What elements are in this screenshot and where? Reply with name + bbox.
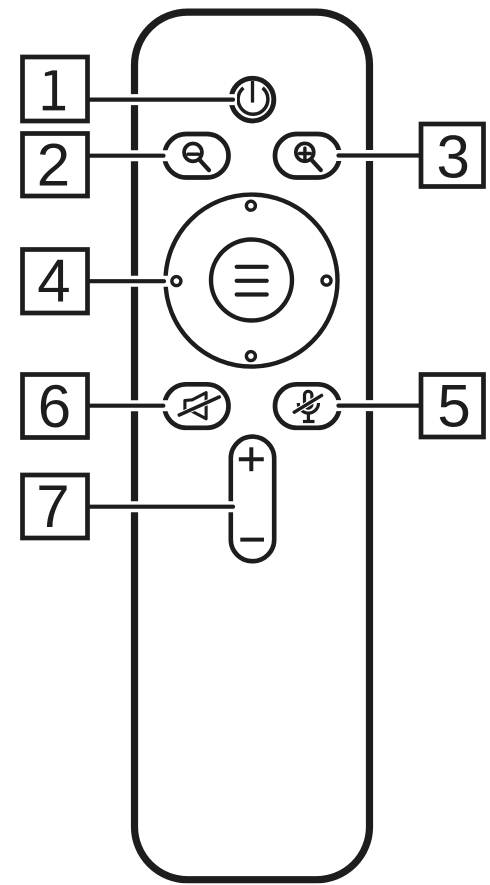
zoom-in icon handle [312, 160, 321, 170]
leader line 3 [339, 153, 419, 157]
d-pad dot bottom [246, 352, 255, 361]
leader line 2 [90, 154, 164, 158]
label box 1 [23, 57, 88, 121]
mic icon holder arc [298, 403, 318, 413]
leader line 2 casing [92, 150, 169, 161]
mute icon slash [179, 397, 219, 415]
mic icon base [303, 420, 315, 423]
d-pad outer ring [166, 195, 338, 367]
label box 5 [421, 375, 484, 438]
volume plus [239, 457, 264, 461]
digit 1 [43, 70, 65, 110]
d-pad dot left [172, 277, 181, 286]
leader line 4 casing [92, 276, 169, 287]
svg-text:5: 5 [437, 373, 470, 440]
power icon arc [238, 88, 268, 114]
zoom-out button pill [165, 134, 229, 178]
d-pad menu line top [237, 265, 267, 269]
zoom-in icon plus [300, 152, 311, 155]
leader line 4 [90, 279, 164, 283]
leader line 1 [90, 97, 233, 101]
zoom-out icon handle [200, 160, 209, 170]
label box 3 [421, 124, 484, 187]
remote body outline [135, 12, 370, 880]
zoom-out icon lens [184, 144, 202, 162]
volume minus [240, 538, 264, 542]
d-pad inner circle [211, 240, 292, 321]
zoom-in icon lens [296, 143, 314, 161]
leader line 1 casing [92, 94, 237, 105]
mic icon stem [307, 413, 310, 420]
leader line 6 [90, 404, 163, 408]
leader line 7 [90, 505, 233, 509]
mic button pill [275, 384, 340, 428]
svg-text:2: 2 [37, 131, 70, 198]
label box 6 [23, 375, 88, 438]
zoom-in button pill [275, 134, 340, 178]
leader line 7 casing [92, 501, 238, 512]
svg-text:6: 6 [38, 373, 71, 440]
d-pad menu line bottom [237, 292, 267, 296]
mute button pill [165, 384, 229, 428]
mic icon slash [294, 395, 321, 412]
svg-text:7: 7 [36, 473, 69, 540]
power button ring [231, 78, 274, 121]
leader line 6 casing [92, 400, 168, 411]
zoom-out icon minus [188, 152, 198, 155]
d-pad dot top [246, 201, 255, 210]
d-pad menu line middle [237, 279, 267, 283]
svg-text:3: 3 [437, 124, 470, 191]
label box 4 [23, 250, 88, 314]
leader line 5 [339, 404, 420, 408]
mute icon speaker [185, 393, 206, 419]
d-pad dot right [322, 276, 331, 285]
mic icon capsule [305, 391, 312, 408]
volume rocker pill [231, 437, 274, 562]
svg-text:4: 4 [37, 247, 70, 314]
label box 2 [23, 134, 88, 197]
leader line 5 casing [334, 400, 416, 411]
leader line 3 casing [334, 150, 416, 161]
label box 7 [23, 475, 88, 538]
power icon stem [251, 81, 254, 103]
mic icon slash casing [294, 395, 321, 412]
mute icon slash casing [179, 397, 219, 415]
